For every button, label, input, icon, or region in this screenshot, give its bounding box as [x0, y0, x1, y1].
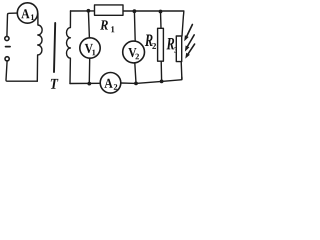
light arrow 3: [185, 44, 194, 59]
wire R2 stem: [161, 12, 162, 81]
voltmeter V1: [80, 38, 100, 58]
bottom wire secondary: [70, 77, 182, 84]
primary winding: [37, 13, 42, 81]
label T: [51, 79, 59, 89]
photoresistor R3: [176, 36, 181, 62]
label R2: [145, 35, 156, 49]
ammeter A1: [17, 3, 37, 23]
top wire secondary: [71, 10, 184, 12]
node bottom V2: [134, 82, 138, 86]
label R1: [100, 20, 114, 32]
wire V2 stem: [134, 11, 136, 83]
node bottom V1: [87, 82, 91, 86]
wire primary left-bottom: [6, 61, 37, 81]
wire primary top-left: [7, 13, 17, 36]
terminal lower: [5, 57, 9, 61]
secondary winding: [66, 11, 70, 84]
label R3: [166, 38, 178, 53]
node top V2: [133, 9, 137, 13]
node top R2: [159, 10, 163, 14]
light arrow 2: [185, 35, 194, 52]
resistor R1: [95, 5, 124, 15]
wire R3 top lead: [181, 11, 184, 79]
ammeter A2: [100, 73, 121, 94]
node top V1: [87, 9, 91, 13]
voltmeter V2: [123, 41, 145, 63]
wire V1 stem: [88, 11, 89, 83]
light arrow 1: [184, 25, 192, 42]
transformer core: [54, 23, 55, 72]
resistor R2: [158, 28, 164, 61]
terminal upper: [5, 36, 9, 40]
node bottom R2: [160, 80, 164, 84]
polarity dash: [6, 46, 10, 48]
